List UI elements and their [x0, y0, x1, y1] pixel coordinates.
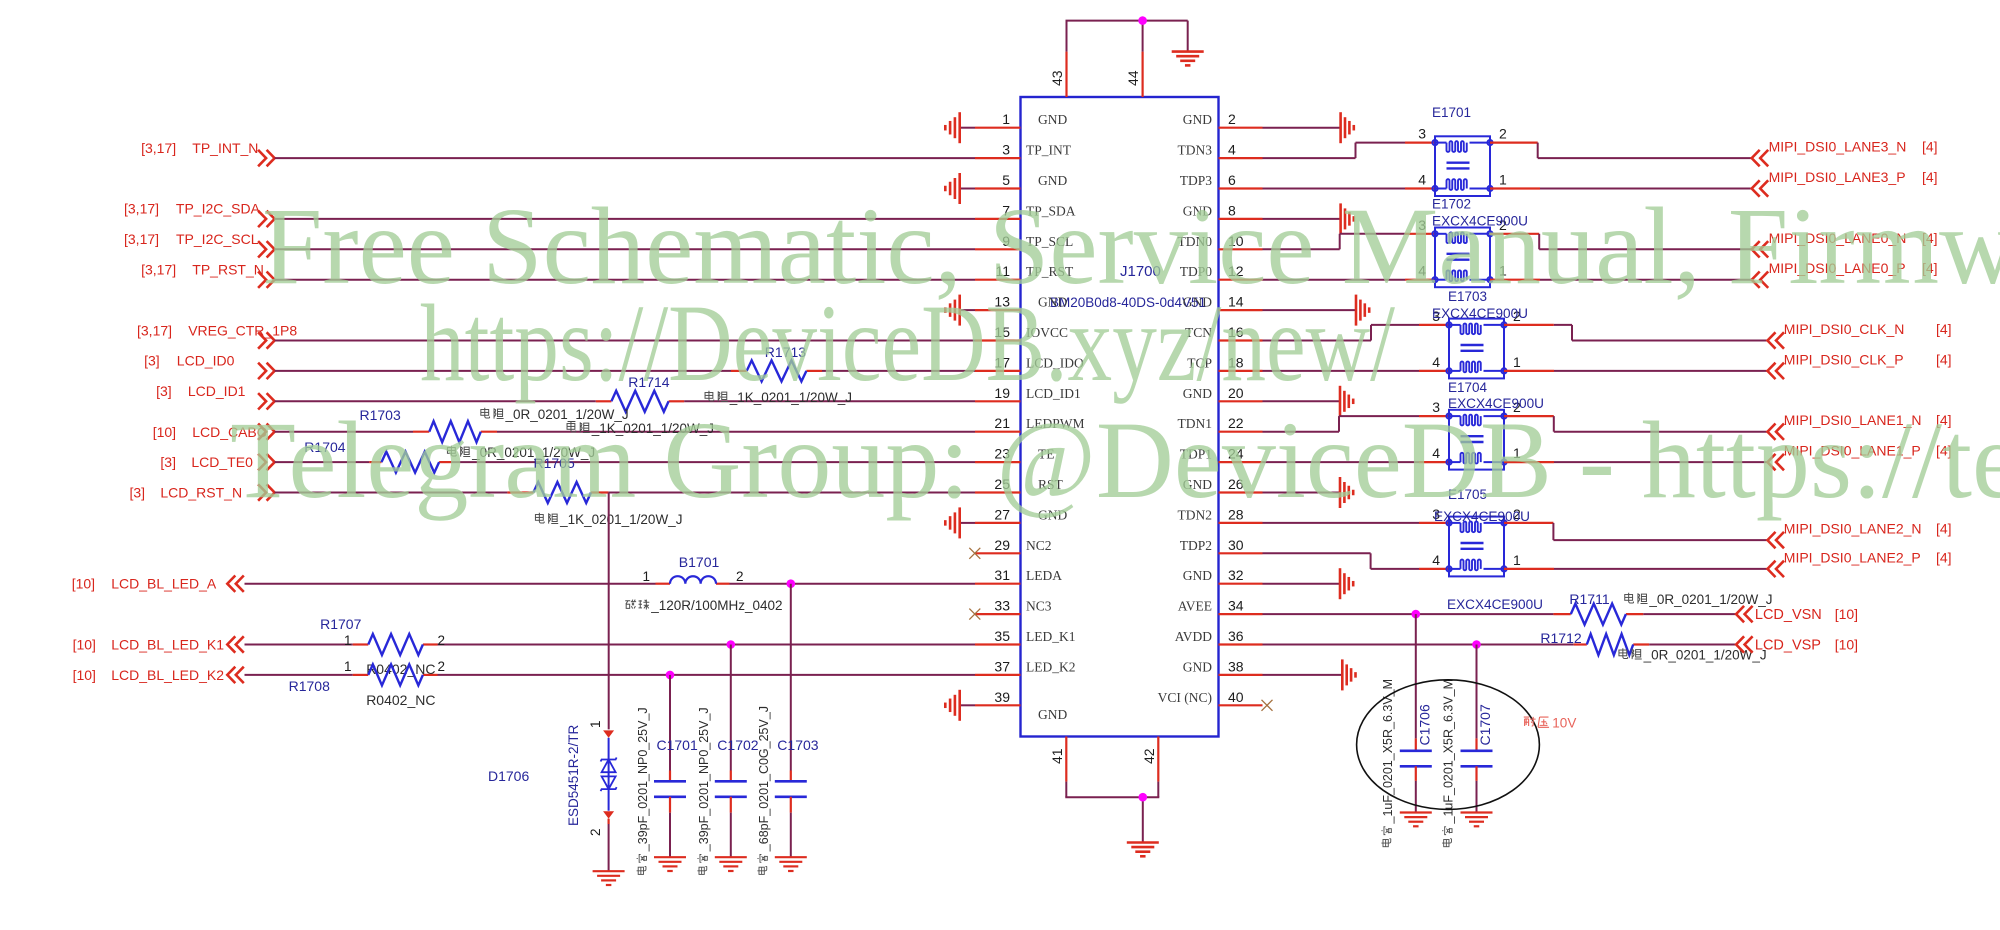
svg-text:1: 1 — [642, 569, 650, 584]
wire MIPI_DSI0_LANE3_N — [1490, 143, 1752, 159]
value R1707 — [366, 661, 435, 677]
pin 4 (TDN3) stub — [1178, 142, 1263, 159]
svg-text:MIPI_DSI0_CLK_P: MIPI_DSI0_CLK_P — [1784, 351, 1904, 367]
svg-text:Telegram Group: @DeviceDB - ht: Telegram Group: @DeviceDB - https://te — [230, 399, 2000, 521]
svg-text:R1711: R1711 — [1569, 591, 1609, 607]
svg-text:_120R/100MHz_0402: _120R/100MHz_0402 — [650, 598, 782, 613]
svg-text:GND: GND — [1183, 112, 1212, 127]
svg-text:1: 1 — [1513, 354, 1521, 370]
svg-text:MIPI_DSI0_LANE3_N: MIPI_DSI0_LANE3_N — [1769, 139, 1907, 155]
wire VREG_CTR_1P8 — [275, 340, 975, 342]
value R1705 — [535, 512, 682, 527]
ground (pin 32) — [1263, 568, 1354, 599]
svg-text:4: 4 — [1432, 354, 1440, 370]
pin 42 stub — [1141, 737, 1158, 782]
common-mode filter E1703 — [1432, 308, 1521, 379]
ground (top) — [1172, 52, 1204, 66]
svg-text:C1703: C1703 — [777, 737, 818, 753]
svg-text:[3,17]: [3,17] — [124, 201, 159, 217]
svg-text:4: 4 — [1228, 142, 1236, 158]
svg-text:ESD5451R-2/TR: ESD5451R-2/TR — [566, 724, 581, 826]
junction LED_K2/C1701 — [666, 671, 675, 680]
svg-text:30: 30 — [1228, 537, 1244, 553]
svg-text:VCI (NC): VCI (NC) — [1158, 690, 1212, 705]
node LCD_BL_LED_K2 sheet connector — [73, 667, 244, 683]
value D1706 — [566, 724, 581, 826]
node LCD_ID0 sheet connector — [144, 353, 275, 379]
svg-text:C1702: C1702 — [717, 737, 758, 753]
resistor R1712 — [1540, 630, 1633, 655]
node MIPI_DSI0_LANE0_P sheet connector — [1752, 260, 1938, 288]
svg-text:34: 34 — [1228, 598, 1244, 614]
ground (pin 14) — [1263, 295, 1370, 326]
svg-text:42: 42 — [1141, 748, 1157, 764]
pin 26 (GND) stub — [1183, 476, 1263, 493]
node VREG_CTR_1P8 sheet connector — [137, 322, 297, 348]
svg-text:AVEE: AVEE — [1178, 599, 1212, 614]
svg-text:1: 1 — [344, 633, 352, 648]
svg-text:TP_RST_N: TP_RST_N — [192, 262, 264, 278]
wire MIPI_DSI0_LANE1_N — [1504, 416, 1768, 432]
pin 18 (TCP) stub — [1187, 354, 1262, 371]
pin 10 (TDN0) stub — [1178, 233, 1263, 250]
wire top ground net — [1066, 21, 1188, 52]
pin 7 (TP_SDA) stub — [975, 202, 1076, 219]
svg-text:[4]: [4] — [1936, 549, 1952, 565]
pin 30 (TDP2) stub — [1180, 537, 1263, 554]
ground (pin 39) — [945, 690, 975, 721]
svg-text:D1706: D1706 — [488, 768, 529, 784]
pin 11 (TP_RST) stub — [975, 263, 1074, 280]
ground (C1702) — [715, 857, 747, 871]
label E1704 — [1448, 380, 1488, 395]
svg-text:LED_K1: LED_K1 — [1026, 629, 1076, 644]
wire TDP3 to E1701 — [1263, 188, 1436, 190]
wire MIPI_DSI0_LANE3_P — [1490, 187, 1752, 189]
ground (pin 2) — [1263, 112, 1354, 143]
svg-text:33: 33 — [994, 598, 1010, 614]
svg-text:LCD_BL_LED_K2: LCD_BL_LED_K2 — [111, 667, 224, 683]
svg-text:GND: GND — [1183, 659, 1212, 674]
svg-text:2: 2 — [438, 659, 446, 674]
wire MIPI_DSI0_CLK_P — [1504, 370, 1768, 372]
svg-text:[3]: [3] — [160, 454, 176, 470]
svg-text:C1701: C1701 — [657, 737, 698, 753]
pin 9 (TP_SCL) stub — [975, 233, 1073, 250]
wire MIPI_DSI0_LANE0_N — [1490, 234, 1752, 250]
svg-text:1: 1 — [1002, 111, 1010, 127]
svg-text:[4]: [4] — [1936, 321, 1952, 337]
node LCD_RST_N sheet connector — [130, 484, 275, 500]
pin 44 stub — [1125, 52, 1143, 97]
svg-text:R1707: R1707 — [320, 616, 361, 632]
svg-text:GND: GND — [1183, 568, 1212, 583]
wire TDN0 to E1702 — [1263, 234, 1436, 250]
svg-text:31: 31 — [994, 567, 1010, 583]
resistor R1708 — [289, 659, 445, 694]
ground (C1706) — [1400, 813, 1432, 827]
svg-text:TP_I2C_SCL: TP_I2C_SCL — [176, 231, 259, 247]
value E1703 — [1448, 396, 1544, 411]
svg-text:LEDA: LEDA — [1026, 568, 1062, 583]
svg-text:3: 3 — [1002, 142, 1010, 158]
wire MIPI_DSI0_LANE2_P — [1504, 568, 1768, 570]
no-connect pin 33 — [969, 609, 980, 620]
junction AVDD/C1707 — [1472, 640, 1481, 649]
svg-text:2: 2 — [1499, 126, 1507, 142]
svg-text:[4]: [4] — [1922, 169, 1938, 185]
wire MIPI_DSI0_LANE1_P — [1504, 461, 1768, 463]
resistor R1704 — [304, 439, 439, 473]
svg-text:[3,17]: [3,17] — [137, 322, 172, 338]
svg-text:[3,17]: [3,17] — [124, 231, 159, 247]
wire LCD_BL_LED_K2 — [245, 674, 976, 676]
label E1702 — [1432, 197, 1471, 212]
capacitor C1706 — [1400, 614, 1433, 812]
IC J1700 connector body — [1021, 97, 1219, 737]
capacitor C1707 — [1461, 645, 1494, 813]
svg-text:GND: GND — [1038, 707, 1067, 722]
no-connect pin 40 — [1262, 700, 1273, 711]
svg-text:40: 40 — [1228, 689, 1244, 705]
junction LEDA/C1703 — [787, 579, 796, 588]
value C1706 — [1381, 679, 1395, 847]
svg-text:[10]: [10] — [72, 576, 95, 592]
node TP_I2C_SDA sheet connector — [124, 201, 275, 227]
svg-text:GND: GND — [1038, 112, 1067, 127]
value R1703 — [447, 445, 595, 460]
node TP_I2C_SCL sheet connector — [124, 231, 275, 257]
wire TCP to E1703 — [1263, 370, 1450, 372]
pin 32 (GND) stub — [1183, 567, 1263, 584]
value C1701 — [636, 707, 650, 874]
svg-text:2: 2 — [438, 633, 446, 648]
ground (C1707) — [1461, 813, 1493, 827]
resistor R1713 — [747, 344, 807, 381]
pin 14 (GND) stub — [1183, 294, 1263, 311]
resistor R1711 — [1569, 591, 1626, 625]
node LCD_CABC sheet connector — [153, 424, 275, 440]
value E1705 — [1447, 597, 1543, 612]
pin 33 (NC3) stub — [975, 598, 1052, 615]
svg-text:NC2: NC2 — [1026, 538, 1052, 553]
node MIPI_DSI0_LANE3_N sheet connector — [1752, 139, 1938, 167]
svg-text:_1uF_0201_X5R_6.3V_M: _1uF_0201_X5R_6.3V_M — [1442, 679, 1456, 825]
value C1707 — [1442, 679, 1456, 847]
pin 40 (VCI (NC)) stub — [1158, 689, 1263, 706]
wire TCN to E1703 — [1263, 325, 1450, 341]
value C1702 — [697, 707, 711, 874]
ground (pin 13) — [945, 295, 975, 326]
resistor R1705 — [533, 455, 591, 503]
svg-text:[10]: [10] — [153, 424, 176, 440]
svg-text:MIPI_DSI0_LANE3_P: MIPI_DSI0_LANE3_P — [1769, 169, 1906, 185]
svg-text:4: 4 — [1432, 552, 1440, 568]
wire LCD_ID0 — [275, 370, 975, 372]
ground (D1706) — [593, 871, 625, 885]
svg-text:E1701: E1701 — [1432, 105, 1471, 120]
value R1714 — [481, 407, 629, 422]
svg-text:[3]: [3] — [130, 485, 146, 501]
svg-text:VREG_CTR_1P8: VREG_CTR_1P8 — [188, 322, 297, 338]
svg-text:TDN3: TDN3 — [1178, 143, 1213, 158]
pin 8 (GND) stub — [1183, 202, 1263, 219]
wire MIPI_DSI0_CLK_N — [1504, 325, 1768, 341]
svg-text:TDP2: TDP2 — [1180, 538, 1212, 553]
svg-text:LCD_ID0: LCD_ID0 — [177, 353, 235, 369]
wire TDN3 to E1701 — [1263, 143, 1436, 159]
pin 36 (AVDD) stub — [1175, 628, 1263, 645]
value R1713 — [705, 390, 852, 405]
ground (pin 1) — [945, 112, 975, 143]
node MIPI_DSI0_CLK_P sheet connector — [1768, 351, 1952, 379]
wire TP_I2C_SCL — [275, 248, 975, 250]
svg-text:2: 2 — [1228, 111, 1236, 127]
node TP_INT_N sheet connector — [141, 140, 275, 166]
common-mode filter E1705 — [1432, 506, 1521, 576]
svg-text:2: 2 — [588, 828, 603, 836]
wire LCD_BL_LED_K1 — [245, 644, 976, 646]
capacitor C1702 — [715, 645, 759, 858]
svg-text:LCD_BL_LED_K1: LCD_BL_LED_K1 — [111, 637, 224, 653]
wire RST to D1706 — [608, 493, 610, 730]
wire TDP0 to E1702 — [1263, 279, 1436, 281]
node LCD_BL_LED_A sheet connector — [72, 576, 244, 592]
value B1701 — [625, 598, 782, 613]
svg-text:3: 3 — [1418, 126, 1426, 142]
svg-text:E1704: E1704 — [1448, 380, 1488, 395]
svg-text:1: 1 — [1513, 552, 1521, 568]
value R1711 — [1625, 592, 1773, 607]
node MIPI_DSI0_LANE1_P sheet connector — [1768, 443, 1952, 471]
svg-text:36: 36 — [1228, 628, 1244, 644]
pin 13 (GND) stub — [975, 294, 1067, 311]
wire LCD_TE0 — [275, 461, 975, 463]
svg-text:_0R_0201_1/20W_J: _0R_0201_1/20W_J — [1648, 592, 1772, 607]
ferrite bead B1701 — [642, 554, 743, 584]
svg-text:41: 41 — [1049, 748, 1065, 764]
pin 37 (LED_K2) stub — [975, 658, 1076, 675]
pin 29 (NC2) stub — [975, 537, 1052, 554]
svg-text:TP_I2C_SDA: TP_I2C_SDA — [176, 201, 261, 217]
svg-text:_68pF_0201_C0G_25V_J: _68pF_0201_C0G_25V_J — [757, 706, 771, 852]
svg-text:[3]: [3] — [156, 383, 172, 399]
ground (pin 26) — [1263, 477, 1354, 508]
label E1703 — [1448, 289, 1487, 304]
node MIPI_DSI0_LANE1_N sheet connector — [1768, 412, 1952, 440]
svg-text:AVDD: AVDD — [1175, 629, 1213, 644]
wire MIPI_DSI0_LANE2_N — [1504, 523, 1768, 540]
svg-text:C1707: C1707 — [1477, 704, 1493, 745]
note 耐压10V — [1524, 716, 1577, 731]
ground (C1701) — [654, 857, 686, 871]
pin 41 stub — [1049, 737, 1066, 782]
svg-text:1: 1 — [588, 720, 603, 728]
svg-text:NC3: NC3 — [1026, 599, 1052, 614]
svg-text:[10]: [10] — [73, 637, 96, 653]
pin 15 (IOVCC) stub — [975, 324, 1068, 341]
junction top — [1138, 16, 1147, 25]
svg-text:EXCX4CE900U: EXCX4CE900U — [1447, 597, 1543, 612]
common-mode filter E1702 — [1418, 217, 1507, 287]
resistor R1707 — [320, 616, 445, 655]
svg-text:37: 37 — [994, 658, 1010, 674]
wire LCD_BL_LED_A — [245, 583, 976, 585]
svg-text:[4]: [4] — [1936, 521, 1952, 537]
pin 38 (GND) stub — [1183, 658, 1263, 675]
pin 24 (TDP1) stub — [1180, 446, 1263, 463]
ground (pin 5) — [945, 173, 975, 204]
svg-text:LCD_ID1: LCD_ID1 — [188, 383, 246, 399]
pin 35 (LED_K1) stub — [975, 628, 1076, 645]
svg-text:B1701: B1701 — [679, 554, 720, 570]
svg-text:_39pF_0201_NP0_25V_J: _39pF_0201_NP0_25V_J — [636, 707, 650, 852]
svg-text:[3,17]: [3,17] — [141, 140, 176, 156]
svg-text:MIPI_DSI0_LANE2_N: MIPI_DSI0_LANE2_N — [1784, 521, 1922, 537]
node MIPI_DSI0_CLK_N sheet connector — [1768, 321, 1952, 349]
ground (C1703) — [775, 857, 807, 871]
node TP_RST_N sheet connector — [141, 262, 275, 288]
ground (bottom) — [1127, 843, 1159, 857]
ground (pin 27) — [945, 507, 975, 538]
wire MIPI_DSI0_LANE0_P — [1490, 279, 1752, 281]
capacitor C1701 — [654, 675, 698, 857]
value E1701 — [1432, 214, 1528, 229]
value R1708 — [366, 692, 435, 708]
svg-text:10V: 10V — [1552, 716, 1576, 731]
junction LED_K1/C1702 — [727, 640, 736, 649]
pin 17 (LCD_IDO) stub — [975, 354, 1084, 371]
svg-text:[3,17]: [3,17] — [141, 262, 176, 278]
node LCD_VSN sheet connector — [1736, 606, 1858, 623]
svg-text:TP_INT: TP_INT — [1026, 143, 1072, 158]
common-mode filter E1704 — [1432, 399, 1521, 469]
watermark — [230, 185, 2000, 521]
node LCD_TE0 sheet connector — [160, 454, 274, 470]
value E1704 — [1434, 509, 1530, 524]
svg-text:[3]: [3] — [144, 353, 160, 369]
wire TDP1 to E1704 — [1263, 461, 1450, 463]
wire bottom ground net — [1065, 782, 1159, 843]
no-connect pin 29 — [969, 548, 980, 559]
pin 20 (GND) stub — [1183, 385, 1263, 402]
node LCD_ID1 sheet connector — [156, 383, 275, 409]
node MIPI_DSI0_LANE2_P sheet connector — [1768, 549, 1952, 577]
svg-text:LCD_VSN: LCD_VSN — [1755, 607, 1822, 623]
svg-text:[10]: [10] — [1835, 637, 1858, 653]
svg-text:2: 2 — [736, 569, 744, 584]
pin 21 (LEDPWM) stub — [975, 415, 1085, 432]
wire LCD_CABC — [275, 431, 975, 433]
pin 5 (GND) stub — [975, 172, 1067, 189]
svg-text:[10]: [10] — [1835, 606, 1858, 622]
svg-text:EXCX4CE900U: EXCX4CE900U — [1432, 306, 1528, 321]
svg-text:TP_INT_N: TP_INT_N — [192, 140, 258, 156]
svg-text:[4]: [4] — [1936, 351, 1952, 367]
node MIPI_DSI0_LANE3_P sheet connector — [1752, 169, 1938, 197]
wire LCD_RST_N — [275, 492, 975, 494]
node MIPI_DSI0_LANE2_N sheet connector — [1768, 521, 1952, 549]
junction AVEE/C1706 — [1412, 610, 1421, 619]
svg-text:MIPI_DSI0_CLK_N: MIPI_DSI0_CLK_N — [1784, 321, 1905, 337]
label E1701 — [1432, 105, 1471, 120]
svg-text:[4]: [4] — [1922, 139, 1938, 155]
pin 34 (AVEE) stub — [1178, 598, 1263, 615]
wire AVDD net — [1263, 644, 1737, 646]
svg-text:_1uF_0201_X5R_6.3V_M: _1uF_0201_X5R_6.3V_M — [1381, 679, 1395, 825]
pin 22 (TDN1) stub — [1178, 415, 1263, 432]
svg-text:35: 35 — [994, 628, 1010, 644]
ground (pin 20) — [1263, 386, 1354, 417]
junction bottom — [1139, 793, 1148, 802]
pin 19 (LCD_ID1) stub — [975, 385, 1081, 402]
node MIPI_DSI0_LANE0_N sheet connector — [1752, 230, 1938, 258]
wire LCD_ID1 — [275, 400, 975, 402]
svg-text:38: 38 — [1228, 658, 1244, 674]
svg-text:LCD_BL_LED_A: LCD_BL_LED_A — [111, 576, 217, 592]
pin 31 (LEDA) stub — [975, 567, 1062, 584]
diode D1706 (TVS) — [488, 720, 617, 871]
resistor R1703 — [360, 407, 481, 442]
svg-text:R1708: R1708 — [289, 678, 330, 694]
svg-text:MIPI_DSI0_LANE2_P: MIPI_DSI0_LANE2_P — [1784, 549, 1921, 565]
ground (pin 38) — [1263, 659, 1356, 690]
pin 3 (TP_INT) stub — [975, 142, 1072, 159]
value label (1K duplicate) — [567, 421, 714, 436]
wire AVEE net — [1263, 613, 1737, 615]
svg-text:[10]: [10] — [73, 667, 96, 683]
value C1703 — [757, 706, 771, 874]
capacitor C1703 — [775, 584, 819, 858]
pin 12 (TDP0) stub — [1180, 263, 1263, 280]
pin 27 (GND) stub — [975, 506, 1067, 523]
wire TP_RST_N — [275, 279, 975, 281]
svg-text:43: 43 — [1049, 70, 1065, 86]
svg-text:_39pF_0201_NP0_25V_J: _39pF_0201_NP0_25V_J — [697, 707, 711, 852]
pin 43 stub — [1049, 52, 1067, 97]
wire TP_INT_N — [275, 157, 975, 159]
svg-text:LED_K2: LED_K2 — [1026, 659, 1076, 674]
highlight ellipse — [1357, 680, 1540, 810]
node LCD_VSP sheet connector — [1736, 636, 1858, 653]
pin 39 (GND) stub — [975, 689, 1067, 722]
wire TDP2 to E1705 — [1263, 553, 1450, 569]
wire TP_I2C_SDA — [275, 218, 975, 220]
svg-text:39: 39 — [994, 689, 1010, 705]
pin 2 (GND) stub — [1183, 111, 1263, 128]
ground (pin 8) — [1263, 203, 1354, 234]
pin 16 (TCN) stub — [1185, 324, 1263, 341]
svg-text:LCD_VSP: LCD_VSP — [1755, 638, 1821, 654]
svg-text:https://DeviceDB.xyz/new/: https://DeviceDB.xyz/new/ — [420, 282, 1395, 404]
svg-text:1: 1 — [344, 659, 352, 674]
wire TDN2 to E1705 — [1263, 522, 1450, 524]
svg-text:44: 44 — [1125, 70, 1141, 86]
node LCD_BL_LED_K1 sheet connector — [73, 636, 244, 652]
svg-text:32: 32 — [1228, 567, 1244, 583]
common-mode filter E1701 — [1418, 126, 1507, 196]
svg-text:R1712: R1712 — [1540, 630, 1581, 646]
wire TDN1 to E1704 — [1263, 416, 1450, 432]
pin 28 (TDN2) stub — [1178, 506, 1263, 523]
svg-text:29: 29 — [994, 537, 1010, 553]
resistor R1714 — [611, 374, 669, 412]
pin 25 (RST) stub — [975, 476, 1064, 493]
pin 1 (GND) stub — [975, 111, 1067, 128]
pin 23 (TE) stub — [975, 446, 1055, 463]
svg-text:C1706: C1706 — [1416, 704, 1432, 745]
pin 6 (TDP3) stub — [1180, 172, 1263, 189]
